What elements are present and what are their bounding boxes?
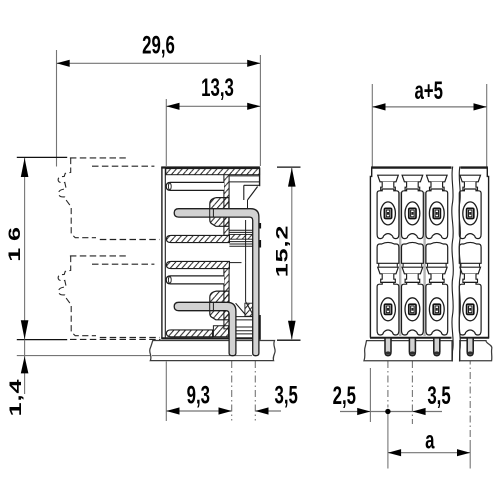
dimension 15,2 tick bottom — [277, 339, 301, 341]
contact finger and collar row 2 — [224, 268, 229, 329]
svg-text:29,6: 29,6 — [142, 31, 175, 59]
break line right — [459, 167, 461, 362]
bottom right hatch block — [245, 303, 253, 316]
svg-text:16: 16 — [5, 220, 24, 262]
dimension 29,6 extension line left — [56, 50, 58, 167]
housing front right edge — [487, 168, 488, 338]
dimension 1,4 line — [24, 340, 26, 394]
bottom wall hatch — [166, 330, 212, 337]
PCB (side view) — [150, 341, 275, 361]
inner vertical below step — [247, 200, 249, 209]
layer line right upper — [229, 181, 260, 183]
right edge upper segment — [259, 168, 261, 187]
pin 1 crimp ticks — [209, 209, 211, 217]
dimension 3,5 line (left view) — [255, 410, 281, 412]
dimension 13,3 arrow left — [166, 103, 179, 110]
column shadow line 1-2 — [399, 192, 401, 336]
top wall hatch (row 1) — [166, 169, 260, 175]
housing front bottom edge — [370, 337, 452, 339]
dimension 16 tick top — [17, 156, 67, 158]
pin D (front) — [467, 338, 473, 356]
pin 1 centerline below board — [231, 361, 233, 421]
dimension 15,2 line — [291, 167, 293, 340]
dimension 9,3 arrow right — [219, 407, 232, 414]
dimension 3,5 line (right view) — [412, 411, 442, 413]
dimension 29,6 extension line right — [259, 55, 261, 166]
pin 1 (top row, right-angle) — [174, 209, 259, 356]
dimension a arrow right — [457, 449, 470, 456]
svg-text:a+5: a+5 — [414, 77, 443, 105]
svg-text:13,3: 13,3 — [201, 74, 234, 102]
dimension 9,3 line — [166, 410, 231, 412]
dimension a+5 line — [372, 106, 486, 108]
step notch vertical — [243, 185, 245, 200]
dimension a+5 arrow right — [474, 103, 487, 110]
dimension 2,5 arrow — [357, 408, 370, 415]
dimension 2,5 line — [340, 411, 412, 413]
dimension a+5 arrow left — [372, 103, 385, 110]
contact position 3 (front) — [427, 175, 448, 182]
svg-text:3,5: 3,5 — [275, 381, 298, 409]
pin D centerline — [469, 358, 471, 441]
column shadow line 2-3 — [423, 192, 425, 336]
lower funnel diagonals — [246, 302, 254, 315]
break line left — [452, 167, 454, 362]
right edge lower segment — [259, 315, 261, 340]
dimension 9,3 arrow left — [166, 407, 179, 414]
dimension 2,5 dot — [385, 409, 390, 414]
channel right vertical — [245, 220, 247, 262]
dimension 1,4 tick — [17, 339, 67, 341]
dimension 1,4 arrow up — [21, 356, 29, 373]
dimension 29,6 arrow right — [247, 60, 260, 67]
pin 2 centerline below board — [254, 361, 256, 421]
row2 channel corner — [229, 262, 241, 264]
housing front left edge — [370, 168, 371, 338]
dimension a extension right — [469, 440, 471, 469]
dimension 16 line — [24, 158, 26, 339]
svg-text:2,5: 2,5 — [333, 382, 356, 410]
contact position n (front) — [460, 175, 481, 182]
pin A centerline — [387, 361, 389, 408]
pin B (front) — [409, 338, 415, 356]
dimension 13,3 arrow right — [247, 103, 260, 110]
housing top edge — [161, 166, 260, 168]
dimension 16 arrow down — [21, 320, 29, 339]
PCB front piece 2 — [460, 341, 492, 361]
dimension 15,2 arrow down — [288, 321, 296, 340]
PCB front piece 1 — [364, 341, 452, 361]
pin C (front) — [434, 338, 440, 356]
dimension 29,6 arrow left — [57, 60, 70, 67]
phantom mating plug upper (dashed) — [70, 157, 126, 159]
contact position 1 (front) — [378, 175, 399, 182]
svg-text:3,5: 3,5 — [427, 382, 450, 410]
dimension 13,3 line — [166, 105, 260, 107]
bottom stacked layer lines — [235, 316, 253, 318]
housing left outer edge — [161, 167, 163, 339]
svg-text:9,3: 9,3 — [187, 381, 210, 409]
mid wall hatch strip (row2 top) — [166, 261, 229, 268]
contact position 2 (front) — [402, 175, 423, 182]
step notch line — [244, 184, 260, 186]
dimension a arrow left — [388, 449, 401, 456]
svg-text:15,2: 15,2 — [272, 225, 291, 278]
dimension 3,5 arrow (right view) — [412, 408, 425, 415]
dimension a+5 extension left — [371, 84, 373, 168]
svg-text:a: a — [425, 426, 435, 454]
dimension a line — [388, 452, 470, 454]
dimension 15,2 tick top — [277, 166, 301, 168]
svg-text:1,4: 1,4 — [6, 379, 25, 417]
dimension 3,5 arrow (left view) — [255, 407, 268, 414]
contact finger and collar row 1 — [224, 175, 229, 236]
pin tip level line over board — [152, 355, 252, 357]
housing bottom edge — [161, 337, 260, 339]
line under top wall (right) — [229, 175, 260, 177]
dimension 16 arrow up — [21, 158, 29, 177]
mid wall extra layers right — [229, 229, 253, 231]
right edge glimpse ticks — [259, 223, 261, 229]
dimension 15,2 arrow up — [288, 168, 296, 187]
pin B centerline — [411, 361, 413, 424]
housing front top edge — [371, 166, 451, 168]
pin 2 crimp ticks — [209, 302, 211, 310]
dimension a extension left — [387, 414, 389, 469]
housing left inner edge — [164, 168, 166, 339]
dimension 9,3 extension line left — [165, 362, 167, 422]
dimension 29,6 line — [57, 62, 261, 64]
phantom mating plug lower (dashed) — [70, 255, 126, 257]
step chamfer diagonal — [248, 187, 258, 200]
dimension a+5 extension right — [486, 84, 488, 168]
dimension 13,3 extension line left — [165, 99, 167, 166]
pin A (front) — [385, 338, 391, 356]
pin tip level extension line — [17, 355, 252, 357]
mid wall hatch strip (row1 chamber bottom) — [166, 235, 229, 242]
phantom bottom dashed line — [70, 338, 161, 340]
pin 2 (bottom row, right-angle) — [174, 302, 236, 355]
dimension 2,5 extension line — [369, 368, 371, 422]
